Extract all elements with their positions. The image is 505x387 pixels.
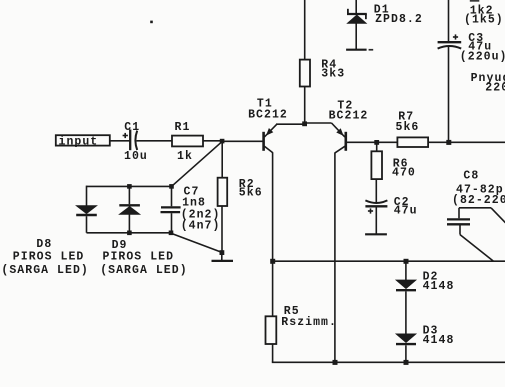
- wire C8 bottom diagonal to upper rail: [460, 235, 493, 261]
- capacitor C2: [365, 179, 417, 234]
- svg-text:4148: 4148: [423, 280, 455, 293]
- ground: [212, 260, 234, 262]
- resistor R4: [300, 59, 345, 87]
- diode D8 (PIROS LED): [1, 186, 96, 277]
- svg-text:(SARGA LED): (SARGA LED): [1, 264, 88, 277]
- resistor R2: [218, 178, 263, 206]
- node C junction dot (emitters / R4): [302, 121, 307, 126]
- wire top feed to C3: [448, 0, 450, 42]
- svg-text:BC212: BC212: [329, 109, 369, 122]
- svg-text:input: input: [59, 136, 99, 149]
- svg-text:BC212: BC212: [248, 109, 288, 122]
- wire node E to right edge: [449, 141, 505, 143]
- wire C8 top diagonal to right edge: [491, 208, 505, 223]
- node H junction dot (T2 collector): [333, 360, 338, 365]
- node I junction dot (D3 bottom): [404, 360, 409, 365]
- svg-text:1n8: 1n8: [182, 196, 206, 209]
- wire R4 bottom to node C: [304, 87, 306, 124]
- svg-text:R1: R1: [175, 121, 191, 134]
- svg-text:47u: 47u: [394, 204, 418, 217]
- diode D3 4148: [396, 325, 454, 347]
- svg-text:C1: C1: [124, 121, 140, 134]
- resistor R5: [266, 261, 337, 362]
- wire bottom rail: [272, 361, 505, 363]
- wire T2 collector down to bottom rail: [334, 152, 336, 362]
- node A junction dot: [220, 139, 225, 144]
- stray scan dot: [150, 21, 153, 24]
- wire upper rail: [273, 260, 505, 262]
- diode D2 4148: [396, 261, 454, 293]
- wire R4 top feed: [304, 0, 306, 60]
- svg-text:10u: 10u: [124, 150, 148, 163]
- resistor R1: [172, 121, 203, 163]
- capacitor C7: [161, 184, 221, 235]
- wire node A diagonal to LED box corner: [172, 142, 222, 186]
- LED box top rail wire: [87, 185, 172, 187]
- wire R1 to node A: [203, 140, 222, 142]
- svg-text:(4n7): (4n7): [181, 219, 221, 232]
- node B junction dot: [220, 250, 225, 255]
- small dash right of D1 end bar: [369, 49, 374, 51]
- node F junction dot (T1 collector / R5): [270, 259, 275, 264]
- transistor T1 BC212: [248, 98, 304, 153]
- svg-text:PIROS LED: PIROS LED: [103, 251, 175, 264]
- wire node A down to R2: [221, 141, 223, 177]
- node G junction dot (D2 top): [404, 259, 409, 264]
- svg-text:(82-220p: (82-220p: [452, 194, 505, 207]
- wire C1 to R1: [136, 140, 172, 142]
- svg-text:PIROS LED: PIROS LED: [13, 251, 85, 264]
- node E junction dot: [446, 140, 451, 145]
- svg-text:(SARGA LED): (SARGA LED): [100, 264, 187, 277]
- svg-text:5k6: 5k6: [239, 186, 263, 199]
- capacitor C1: [123, 121, 148, 163]
- diode D9 (PIROS LED): [100, 184, 187, 277]
- wire D2 to D3: [405, 291, 407, 334]
- LED box bottom rail wire: [87, 232, 172, 234]
- resistor R7: [396, 110, 429, 147]
- svg-text:4148: 4148: [423, 334, 455, 347]
- zener diode D1 ZPD8.2: [346, 0, 423, 50]
- svg-text:Rszimm.: Rszimm.: [281, 316, 337, 329]
- svg-text:5k6: 5k6: [396, 121, 420, 134]
- input terminal box: [56, 135, 110, 148]
- label 1k2 (1k5): [464, 4, 504, 26]
- wire LED box corner diagonal to node B: [171, 233, 222, 252]
- svg-text:ZPD8.2: ZPD8.2: [375, 13, 423, 26]
- wire T1 collector down to lower rail: [272, 152, 274, 261]
- svg-text:C8: C8: [463, 169, 479, 182]
- wire R2 bottom to node B: [221, 206, 223, 252]
- wire T2 base to R7: [347, 141, 397, 143]
- svg-text:D8: D8: [36, 238, 52, 251]
- wire node B to ground: [221, 254, 223, 260]
- wire input to C1: [110, 140, 130, 142]
- node D junction dot (base / R6): [374, 140, 379, 145]
- cropped text sliver top edge: [470, 0, 480, 2]
- resistor R6: [371, 142, 415, 179]
- capacitor C3: [438, 32, 505, 63]
- svg-text:1k: 1k: [177, 150, 193, 163]
- wire node A to T1 base: [222, 140, 263, 142]
- capacitor C8: [447, 169, 505, 234]
- wire C3 down to node E: [448, 47, 450, 143]
- svg-text:(220u): (220u): [460, 50, 505, 63]
- svg-text:3k3: 3k3: [321, 67, 345, 80]
- wire R7 to node E: [428, 141, 449, 143]
- svg-text:(1k5): (1k5): [464, 14, 504, 27]
- label Pnyug 220: [471, 72, 505, 95]
- svg-text:220: 220: [485, 82, 505, 95]
- wire D3 to bottom rail: [405, 345, 407, 362]
- transistor T2 BC212: [305, 99, 369, 152]
- svg-text:470: 470: [392, 166, 416, 179]
